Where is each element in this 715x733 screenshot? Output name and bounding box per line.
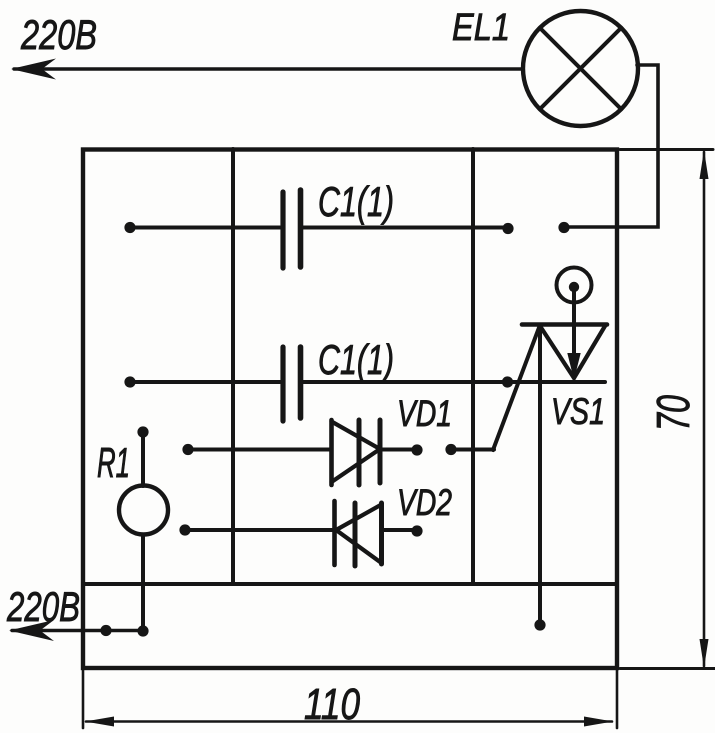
dimension 70 extension line top bbox=[620, 148, 713, 151]
wire: inner partition right bbox=[471, 149, 475, 584]
node: pad on bottom lead bbox=[100, 625, 111, 636]
wire: VD2 right lead bbox=[382, 528, 417, 532]
board outline 110x70 bbox=[83, 150, 617, 669]
node: left pad of diode VD2 bbox=[179, 524, 190, 535]
node: junction on VS1 anode wire bbox=[502, 376, 513, 387]
thyristor VS1 arrowhead bbox=[567, 353, 580, 380]
diode VD1 bbox=[329, 420, 334, 485]
lamp EL1 bbox=[523, 11, 638, 126]
node: right pad of C1(1) top bbox=[502, 223, 513, 234]
node: dot inside indicator bbox=[569, 282, 579, 292]
wire: VD1 left lead bbox=[188, 448, 331, 452]
wire: inner horizontal rail bbox=[83, 582, 617, 586]
wire: R1 bottom lead bbox=[141, 535, 145, 632]
node: VD1 right pad bbox=[411, 444, 422, 455]
wire: VD1 right lead bbox=[380, 448, 416, 452]
node: bottom pad of R1 bbox=[137, 625, 148, 636]
wire: inner partition left bbox=[231, 149, 235, 584]
thyristor VS1 triangle bbox=[540, 326, 605, 378]
node: pad on gate branch bbox=[445, 444, 456, 455]
capacitor C1(1) top bbox=[280, 192, 285, 268]
node: VD2 right pad bbox=[411, 525, 422, 536]
node: VS1 cathode pad bbox=[534, 619, 545, 630]
wire: C1(1) second right lead to VS1 bbox=[303, 380, 605, 384]
dimension 110 extension line left bbox=[82, 670, 85, 728]
svg-text:220В: 220В bbox=[20, 11, 97, 58]
svg-text:VS1: VS1 bbox=[551, 391, 605, 432]
node: pad at lamp feed bbox=[558, 222, 569, 233]
wire: C1(1) top left lead bbox=[130, 226, 280, 230]
arrow: 110 left bbox=[85, 717, 114, 727]
wire: R1 top lead bbox=[141, 432, 145, 486]
node: left pad of capacitor C1(1) second bbox=[124, 376, 135, 387]
dimension 110 line bbox=[86, 720, 612, 723]
resistor R1 bbox=[119, 486, 168, 535]
wire: VS1 cathode down lead bbox=[538, 325, 542, 622]
dimension 70 line bbox=[703, 152, 706, 666]
node: left pad of diode VD1 bbox=[182, 444, 193, 455]
svg-text:110: 110 bbox=[304, 680, 360, 729]
svg-text:R1: R1 bbox=[97, 439, 130, 486]
svg-text:EL1: EL1 bbox=[452, 7, 510, 49]
svg-text:70: 70 bbox=[647, 395, 699, 431]
wire: VD2 left lead bbox=[185, 528, 334, 532]
wire: gate branch horizontal bbox=[451, 448, 494, 452]
dimension 110 extension line right bbox=[616, 670, 619, 728]
node: top pad of resistor R1 bbox=[137, 426, 148, 437]
wire: C1(1) top right lead bbox=[303, 226, 507, 230]
diode VD2 bbox=[332, 501, 337, 565]
thyristor VS1 indicator circle bbox=[557, 268, 592, 303]
svg-text:C1(1): C1(1) bbox=[318, 178, 394, 225]
capacitor C1(1) second bbox=[280, 347, 285, 421]
svg-text:VD1: VD1 bbox=[397, 393, 452, 434]
wire: bottom 220V lead bbox=[12, 629, 143, 632]
arrow: 70 bottom bbox=[700, 639, 709, 668]
svg-text:C1(1): C1(1) bbox=[318, 336, 394, 383]
arrow: bottom-left mains arrowhead bbox=[9, 620, 54, 641]
arrow: 70 top bbox=[700, 150, 709, 179]
wire: gate diagonal of VS1 bbox=[493, 325, 540, 450]
arrow: top-left mains arrowhead bbox=[11, 59, 56, 80]
node: left pad of capacitor C1(1) top bbox=[124, 222, 135, 233]
thyristor VS1 anode bar bbox=[522, 322, 607, 327]
wire: top 220V mains lead bbox=[14, 67, 521, 70]
arrow: 110 right bbox=[584, 717, 613, 727]
wire: VS1 light arrow shaft bbox=[572, 292, 576, 372]
wire: C1(1) second left lead bbox=[130, 380, 280, 384]
svg-text:VD2: VD2 bbox=[397, 482, 452, 523]
dimension 70 extension line bottom bbox=[620, 667, 715, 670]
wire: lamp right lead down into board bbox=[564, 65, 658, 227]
